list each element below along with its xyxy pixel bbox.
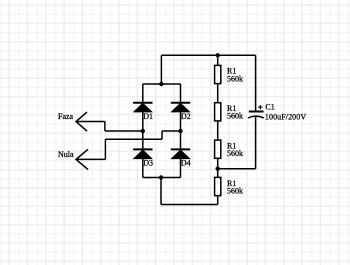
svg-text:D1: D1: [143, 112, 153, 121]
diode D2: [171, 103, 190, 112]
wire Faza to node A: [105, 130, 143, 132]
Faza arrow connector: [76, 112, 87, 131]
svg-text:C1: C1: [265, 102, 274, 111]
wire bottom to R4: [217, 196, 219, 205]
wire left rail D1 to node A: [142, 112, 144, 131]
svg-text:D4: D4: [181, 158, 191, 167]
wire left rail D3 to bottom: [142, 158, 144, 177]
wire bridge top horizontal: [143, 83, 181, 85]
svg-text:100uF/200V: 100uF/200V: [265, 113, 306, 122]
wire Nula crossing horizontal: [105, 138, 162, 140]
diode D3: [133, 149, 152, 158]
wire right rail D2 to node C: [180, 112, 182, 131]
wire top rail horizontal: [161, 54, 255, 56]
wire left rail node A to D3: [142, 131, 144, 149]
junction bridge top: [159, 82, 163, 86]
wire Nula horizontal: [76, 158, 105, 160]
wire capacitor to node B: [218, 168, 256, 170]
wire bridge bottom horizontal: [143, 177, 181, 179]
svg-text:D2: D2: [181, 112, 191, 121]
node C junction: [178, 129, 182, 133]
Nula arrow connector: [76, 149, 88, 169]
diode D4: [171, 149, 190, 158]
wire Faza vertical step: [104, 122, 106, 132]
wire Faza horizontal: [76, 121, 105, 123]
node B junction: [216, 167, 220, 171]
svg-text:Nula: Nula: [58, 150, 74, 159]
resistor R1 (second): [215, 103, 221, 121]
junction bridge bottom: [159, 175, 163, 179]
svg-text:560k: 560k: [227, 187, 243, 196]
wire capacitor bottom vertical: [255, 117, 257, 169]
wire R1 to R2: [217, 84, 219, 103]
wire left rail above D1: [142, 84, 144, 103]
svg-text:560k: 560k: [227, 112, 243, 121]
svg-text:560k: 560k: [227, 149, 243, 158]
junction top rail to resistor chain: [216, 53, 220, 57]
wire right rail D4 to bottom: [180, 158, 182, 177]
svg-text:Faza: Faza: [58, 112, 74, 121]
svg-text:D3: D3: [143, 158, 153, 167]
wire R2 to R3: [217, 121, 219, 140]
resistor R1 (third): [215, 140, 221, 158]
diode D1: [133, 103, 152, 112]
node A junction: [141, 129, 145, 133]
capacitor C1: [248, 105, 264, 118]
wire Nula to node C: [162, 130, 181, 132]
wire top rail to R1: [217, 55, 219, 65]
resistor R1 (first): [215, 65, 221, 83]
wire R3 to node B: [217, 158, 219, 177]
wire right rail node C to D4: [180, 131, 182, 149]
svg-text:560k: 560k: [227, 74, 243, 83]
wire right rail above D2: [180, 84, 182, 103]
wire Nula step up: [161, 131, 163, 139]
resistor R1 (fourth): [215, 177, 221, 195]
wire Nula vertical up: [104, 139, 106, 159]
wire capacitor branch vertical top: [255, 55, 257, 111]
wire top rail to bridge vertical: [160, 55, 162, 84]
wire bridge bottom down: [160, 178, 162, 205]
wire bottom horizontal: [161, 204, 218, 206]
